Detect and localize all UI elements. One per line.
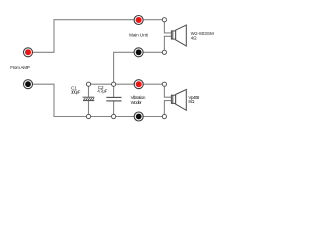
svg-text:Main Unit: Main Unit [129, 33, 148, 38]
svg-text:4Ω: 4Ω [191, 36, 198, 41]
svg-text:Woofer: Woofer [131, 100, 143, 105]
svg-text:8Ω: 8Ω [188, 99, 195, 104]
svg-text:100µF: 100µF [71, 90, 81, 95]
svg-text:From AMP: From AMP [10, 65, 30, 70]
svg-text:4.7µF: 4.7µF [97, 89, 107, 94]
